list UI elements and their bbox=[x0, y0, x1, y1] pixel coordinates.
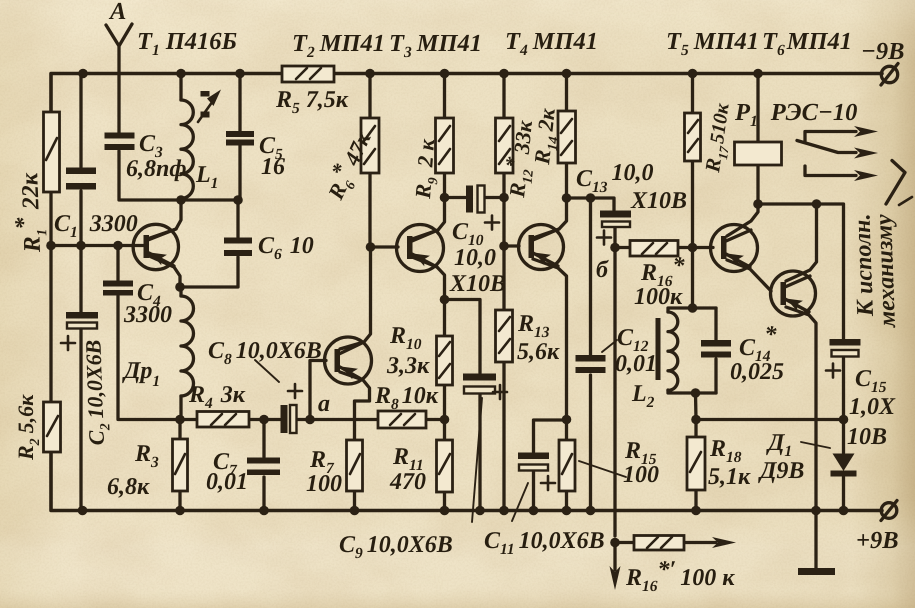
leader C8 bbox=[255, 360, 279, 382]
svg-text:3,3к: 3,3к bbox=[386, 353, 430, 379]
wire detector row to C15/D1 bbox=[696, 418, 844, 421]
wire T2 emitter to R7 bbox=[340, 372, 370, 440]
resistor R10 bbox=[437, 336, 453, 385]
wire T3 collector / R9 branch bbox=[412, 74, 445, 240]
leader C12 bbox=[602, 340, 617, 352]
svg-text:0,01: 0,01 bbox=[206, 469, 248, 495]
svg-text:5,1к: 5,1к bbox=[708, 464, 751, 490]
svg-text:механизму: механизму bbox=[871, 214, 901, 329]
junction dot T6 collector bbox=[812, 199, 822, 209]
svg-text:б: б bbox=[596, 257, 609, 283]
wire arrow down from wiper bbox=[613, 543, 616, 571]
wire C15 bottom bbox=[842, 358, 845, 420]
wire T1 collector bbox=[147, 200, 181, 239]
capacitor C11 electrolytic bbox=[518, 453, 555, 491]
transistor T1 bbox=[133, 224, 178, 269]
wire left column R1-R2 bbox=[49, 192, 52, 402]
svg-text:Т5МП41: Т5МП41 bbox=[666, 28, 759, 59]
resistor R14 bbox=[558, 111, 576, 163]
leader R15 bbox=[579, 461, 626, 477]
wire R4 to C8 node bbox=[180, 418, 280, 421]
wire C9 tap from emitter bbox=[445, 300, 481, 374]
svg-text:5,6к: 5,6к bbox=[517, 339, 560, 365]
wire T4 collector / R14 branch bbox=[533, 74, 567, 239]
wire collector bus to C15 bbox=[758, 204, 844, 339]
wire C9 bottom stem bbox=[478, 395, 481, 511]
capacitor C4 bbox=[103, 281, 133, 296]
svg-text:100к: 100к bbox=[634, 284, 683, 310]
svg-text:100: 100 bbox=[623, 462, 659, 488]
wire T5 collector bbox=[727, 204, 758, 236]
wire ground stem bbox=[814, 511, 817, 569]
resistor R17 bbox=[685, 113, 701, 161]
capacitor C7 bbox=[247, 458, 280, 476]
wire T4 emitter down to R15 bbox=[533, 259, 567, 511]
core bar of L2 bbox=[656, 318, 661, 380]
wire node b to R16 bbox=[615, 246, 630, 249]
junction dot R16/R17/T5 base node bbox=[688, 243, 698, 253]
resistor R11 bbox=[437, 440, 453, 492]
wire C6 branch bbox=[181, 200, 238, 287]
resistor R1 bbox=[44, 112, 60, 192]
junction dot relay/T5 collector bbox=[753, 199, 763, 209]
terminal -9V bbox=[881, 64, 898, 86]
capacitor C9 electrolytic bbox=[463, 374, 507, 400]
resistor R13 bbox=[496, 310, 513, 362]
inductor L1 bbox=[181, 100, 193, 198]
relay P1 coil bbox=[735, 142, 782, 165]
svg-text:100: 100 bbox=[306, 471, 342, 497]
junction dot R4 node bbox=[175, 415, 185, 425]
inductor L2 bbox=[668, 312, 678, 390]
wire R3 branch bbox=[178, 420, 181, 511]
wire base row T1 bbox=[51, 244, 144, 247]
resistor R4 bbox=[197, 412, 249, 428]
wire T1 emitter to junction bbox=[147, 255, 180, 287]
wire potentiometer tap b column bbox=[613, 248, 616, 537]
wire C5 branch bbox=[238, 74, 241, 201]
resistor R12 bbox=[496, 118, 514, 173]
antenna A bbox=[106, 24, 132, 133]
capacitor C1 bbox=[66, 168, 96, 190]
capacitor C14 bbox=[701, 340, 731, 358]
wire T4 collector node to C13 bbox=[567, 198, 615, 210]
wire D1 branch bbox=[842, 420, 845, 511]
junction dot node b bbox=[610, 243, 620, 253]
svg-text:Т4МП41: Т4МП41 bbox=[505, 28, 598, 59]
junction dot tank row L1 bbox=[176, 195, 186, 205]
junction dot R8/R10/R11 node bbox=[440, 415, 450, 425]
wire R10 R11 column bbox=[443, 300, 446, 511]
svg-text:А: А bbox=[108, 0, 126, 25]
capacitor C12 bbox=[576, 355, 606, 373]
wire R17 branch bbox=[691, 74, 694, 248]
svg-text:10В: 10В bbox=[847, 424, 887, 450]
junction dot T4 collector node bbox=[562, 193, 572, 203]
wire T3 emitter down bbox=[412, 257, 445, 300]
leader C11 bbox=[512, 483, 528, 521]
svg-text:Т3МП41: Т3МП41 bbox=[389, 30, 482, 61]
wire R6 branch bbox=[368, 74, 371, 248]
diode D1 bbox=[831, 454, 857, 477]
capacitor C15 electrolytic bbox=[826, 339, 861, 378]
wire L2 loop top and bottom bbox=[668, 308, 716, 393]
svg-text:R57,5к: R57,5к bbox=[275, 87, 349, 117]
junction dot L2 bottom bbox=[691, 388, 701, 398]
chevron to actuator bbox=[886, 161, 905, 205]
resistor R16 bbox=[630, 241, 678, 257]
svg-text:Х10В: Х10В bbox=[449, 271, 506, 297]
capacitor C2 electrolytic bbox=[61, 246, 98, 511]
wire L2 bottom to R18 bbox=[694, 393, 698, 511]
wire R16 right to R17 junction bbox=[678, 246, 693, 249]
transistor T5 bbox=[711, 225, 758, 272]
wire node a row to R8 bbox=[310, 418, 444, 421]
svg-text:1,0Х: 1,0Х bbox=[849, 394, 896, 420]
wire R7 to rail bbox=[353, 491, 356, 511]
capacitor C8 electrolytic bbox=[281, 384, 303, 433]
wire T3 base bbox=[371, 245, 399, 248]
wire T5 emitter to T6 base bbox=[727, 260, 771, 291]
wire T6 emitter to rail bbox=[786, 307, 816, 511]
capacitor C5 bbox=[226, 131, 254, 146]
resistor R7 bbox=[347, 440, 363, 491]
top supply rail -9V bbox=[51, 74, 882, 113]
resistor R8 bbox=[378, 411, 426, 428]
svg-text:3300: 3300 bbox=[123, 302, 172, 328]
resistor R15 bbox=[559, 440, 575, 491]
wire C10 row bbox=[445, 196, 505, 199]
junction dots bottom rail bbox=[78, 506, 849, 516]
svg-text:−9В: −9В bbox=[861, 38, 904, 65]
junction dot R18 top node bbox=[691, 415, 701, 425]
wire T6 collector bbox=[786, 204, 817, 281]
svg-text:10,0: 10,0 bbox=[454, 245, 496, 271]
junction dot L2 top bbox=[688, 303, 698, 313]
junction dots base row bbox=[46, 241, 123, 251]
svg-text:Т2МП41: Т2МП41 bbox=[292, 30, 385, 61]
bottom supply rail +9V bbox=[51, 452, 882, 511]
wire C3 to tank row bbox=[119, 151, 238, 200]
inductor Dr1 choke bbox=[181, 296, 194, 396]
wire T5 base bbox=[693, 246, 714, 249]
capacitor C3 bbox=[105, 133, 135, 151]
leader D1 bbox=[801, 442, 830, 448]
relay contact blade arrow 2 bbox=[797, 141, 878, 159]
junction dot C10/R12 node bbox=[499, 193, 509, 203]
resistor R3 bbox=[173, 439, 188, 491]
capacitor C6 bbox=[224, 238, 252, 257]
relay contact arrow 1 bbox=[805, 126, 878, 141]
trimmer core of L1 bbox=[198, 90, 221, 123]
junction dot T1 emitter bbox=[175, 282, 185, 292]
wire C12 column bbox=[589, 198, 592, 511]
wire C11 branch bbox=[534, 420, 567, 511]
svg-text:Т6МП41: Т6МП41 bbox=[762, 28, 852, 59]
wire C14 branch of loop bbox=[714, 308, 717, 393]
resistor R18 bbox=[687, 437, 705, 490]
svg-text:+9В: +9В bbox=[856, 527, 899, 554]
wire R12 R13 divider column bbox=[502, 74, 505, 511]
junction dot C12 top node bbox=[586, 193, 596, 203]
svg-text:а: а bbox=[318, 391, 330, 417]
junction dot T4 base node bbox=[499, 241, 509, 251]
junction dots top rail bbox=[78, 69, 763, 79]
wire C1 branch bbox=[79, 74, 82, 246]
wire C13 bottom to node b bbox=[613, 228, 616, 248]
svg-text:0,025: 0,025 bbox=[730, 359, 784, 385]
svg-text:R810к: R810к bbox=[374, 383, 439, 413]
resistor R2 bbox=[44, 402, 61, 452]
wire C7 branch bbox=[262, 420, 265, 511]
svg-text:С13300: С13300 bbox=[54, 211, 138, 241]
transistor T2 bbox=[325, 337, 372, 384]
junction dot T3 base node bbox=[366, 242, 376, 252]
arrowhead down from wiper bbox=[610, 566, 621, 590]
capacitor C10 electrolytic bbox=[466, 186, 499, 230]
relay contact arrow 3 bbox=[805, 166, 878, 181]
junction dot C7 node bbox=[259, 415, 269, 425]
arrowhead R16' right bbox=[712, 537, 736, 548]
svg-text:6,8к: 6,8к bbox=[107, 474, 150, 500]
wire T4 base bbox=[504, 244, 519, 247]
junction dot tank row C5 bbox=[233, 195, 243, 205]
wire wiper to R16' and arrow right bbox=[615, 541, 716, 544]
transistor T6 bbox=[771, 271, 816, 316]
leader C9 bbox=[472, 398, 482, 522]
ground chassis bar bbox=[798, 568, 835, 575]
svg-text:16: 16 bbox=[261, 154, 285, 180]
junction dot T3 emitter node bbox=[440, 295, 450, 305]
wire L1 branch bbox=[179, 74, 182, 201]
transistor T4 bbox=[519, 225, 564, 270]
terminal +9V bbox=[881, 501, 897, 521]
resistor R16' potentiometer bbox=[634, 536, 684, 551]
wire L2 top feed bbox=[691, 248, 694, 309]
wire node a to T2 base bbox=[310, 361, 326, 420]
svg-text:Д9В: Д9В bbox=[758, 458, 804, 484]
capacitor C13 electrolytic bbox=[597, 211, 631, 245]
svg-text:6,8пф: 6,8пф bbox=[126, 156, 187, 182]
svg-text:0,01: 0,01 bbox=[615, 351, 657, 377]
junction dot C11/R15 node bbox=[562, 415, 572, 425]
transistor T3 bbox=[397, 225, 444, 272]
wire relay coil branch bbox=[756, 74, 759, 205]
wire T2 collector up to T3 base junction bbox=[340, 247, 371, 349]
junction dot C15 bottom/D1 bbox=[839, 415, 849, 425]
wire C4 branch bbox=[118, 246, 180, 420]
tick by label bbox=[899, 197, 912, 205]
junction dot R9/C10 node bbox=[440, 193, 450, 203]
wire C8 to node a bbox=[297, 418, 310, 421]
resistor R9 bbox=[436, 118, 454, 173]
resistor R6 bbox=[361, 118, 379, 173]
svg-text:470: 470 bbox=[389, 469, 426, 495]
svg-text:Х10В: Х10В bbox=[630, 188, 687, 214]
junction dot wiper R16' bbox=[610, 538, 620, 548]
junction dot node a bbox=[305, 415, 315, 425]
resistor R5 bbox=[282, 66, 334, 82]
wire choke Dr1 branch bbox=[179, 287, 182, 420]
